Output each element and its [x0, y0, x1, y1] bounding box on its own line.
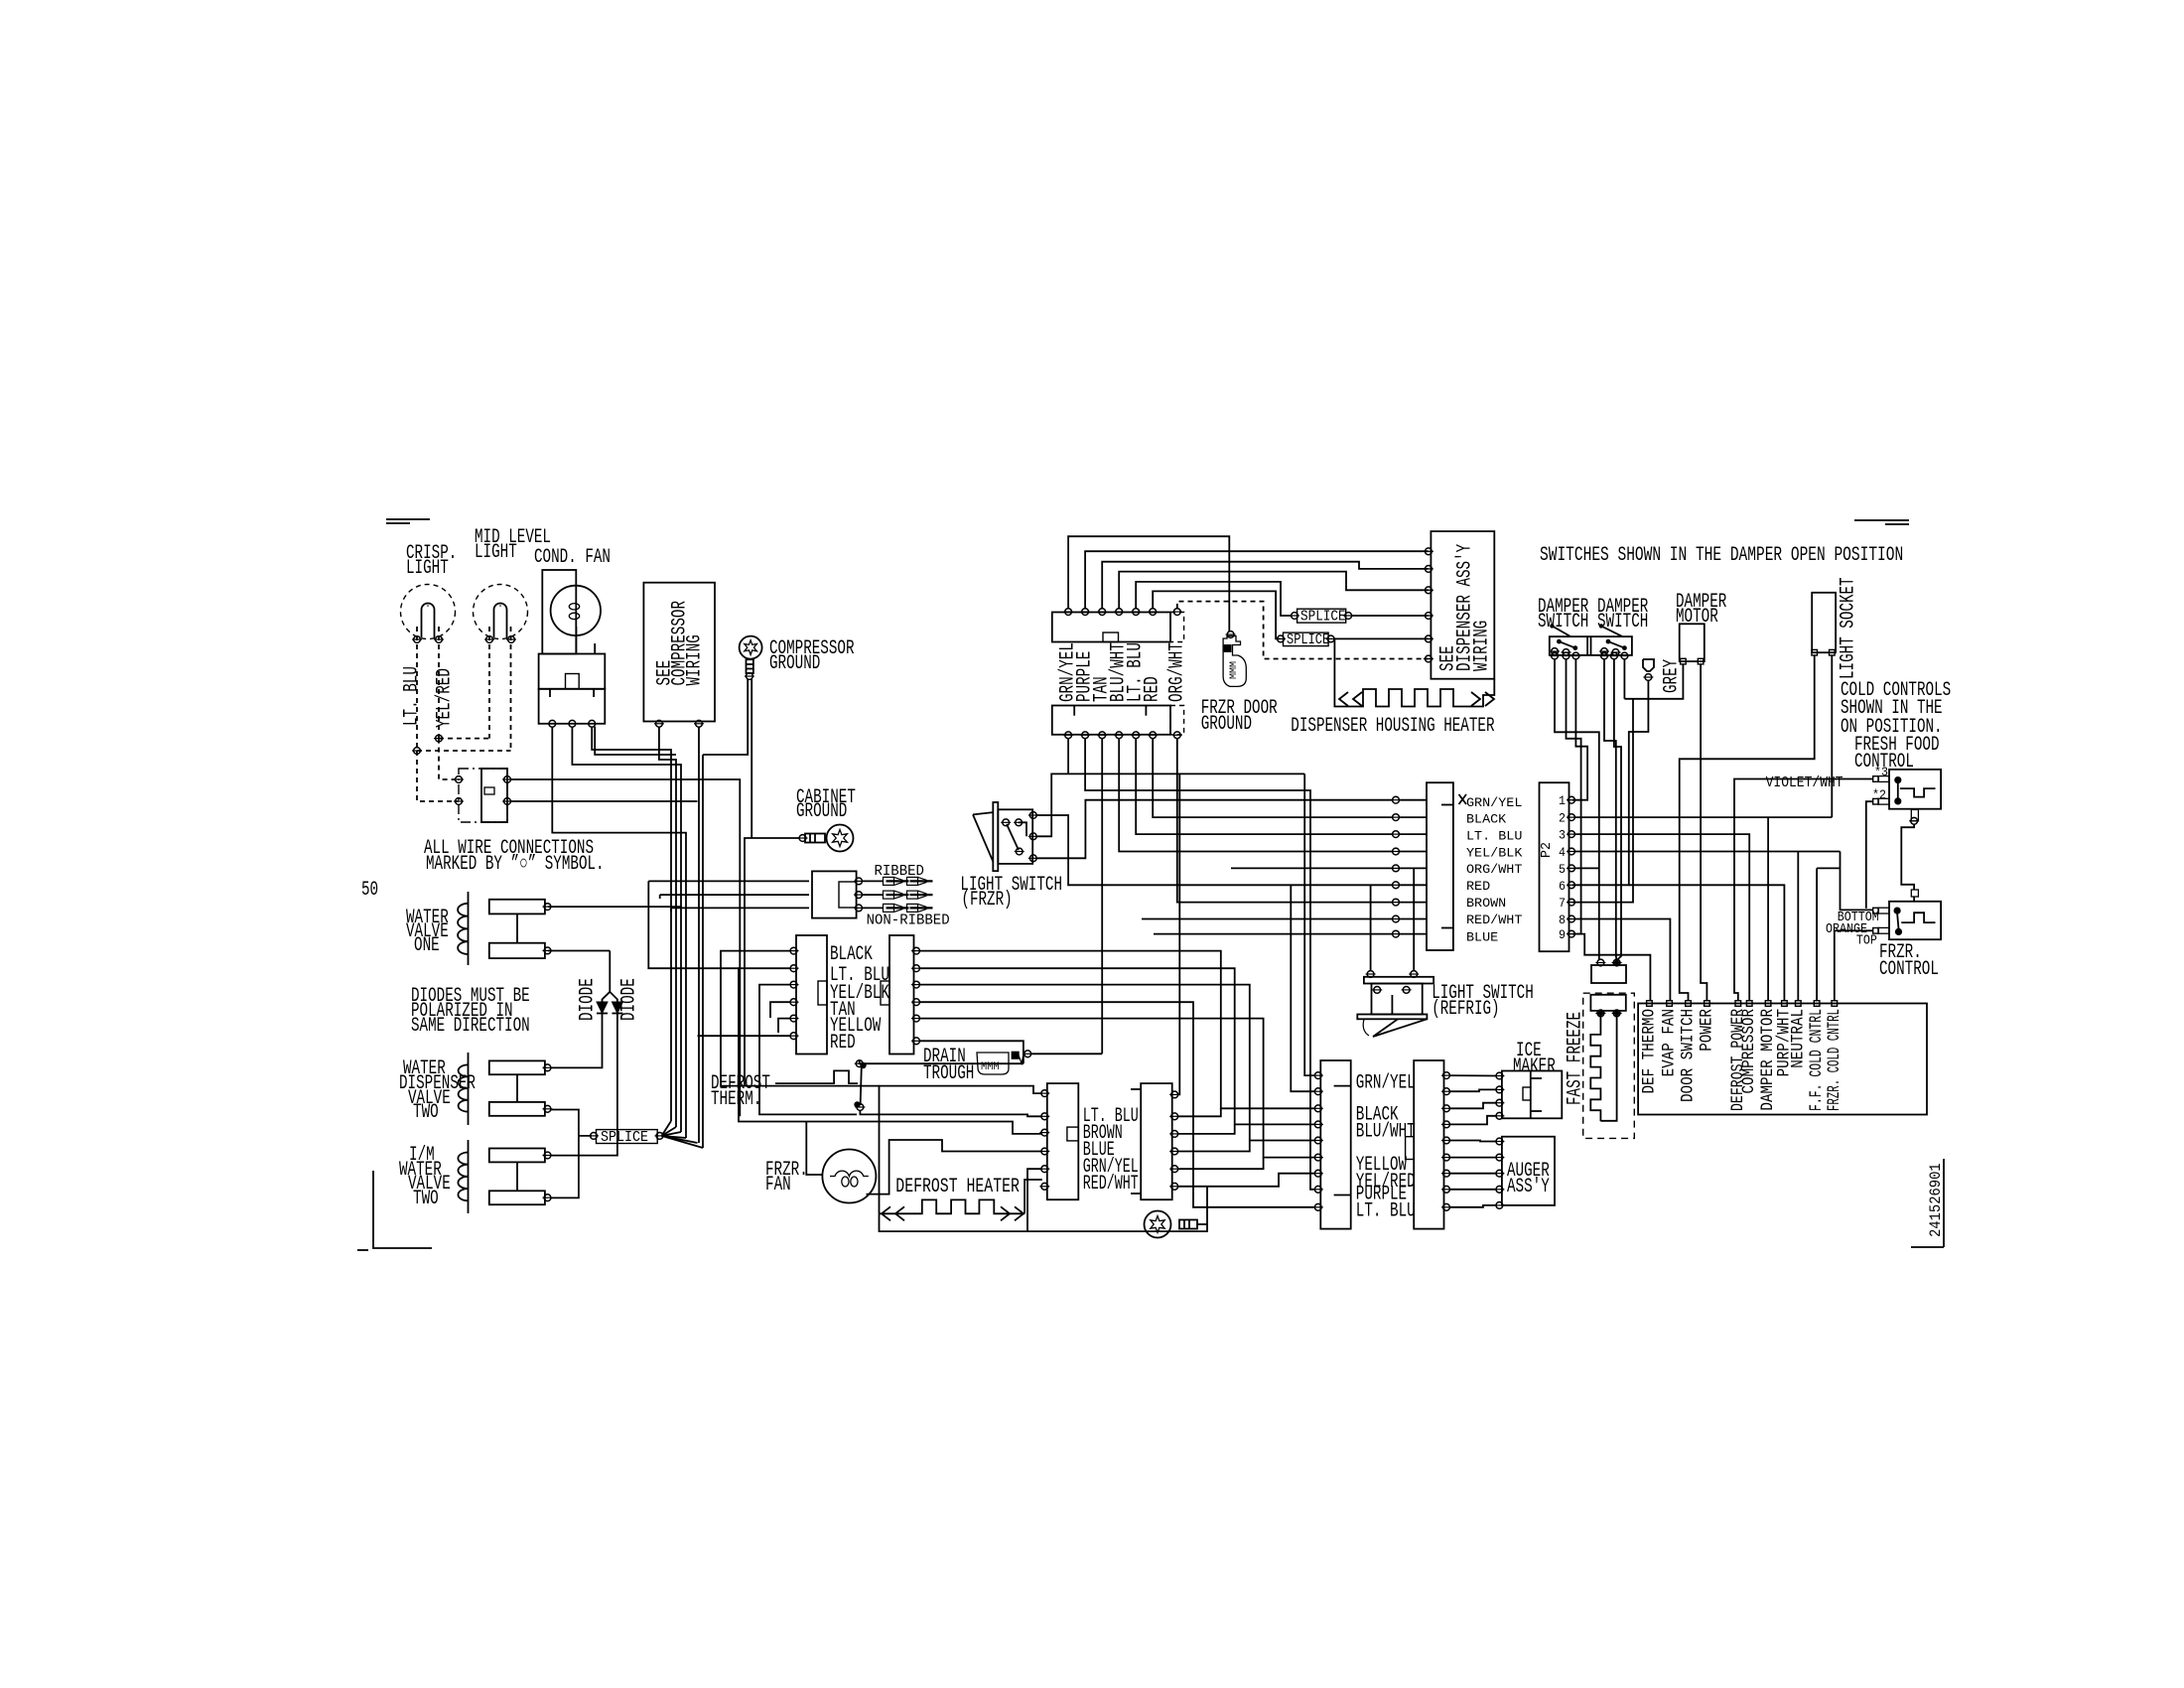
label P2	[1539, 842, 1555, 858]
label FRZR. FAN	[765, 1159, 808, 1196]
svg-text:P2: P2	[1539, 842, 1555, 858]
label GREY	[1661, 659, 1684, 693]
svg-text:VIOLET/WHT: VIOLET/WHT	[1766, 774, 1843, 791]
label AUGER ASS'Y	[1507, 1160, 1550, 1198]
control ff internals	[1894, 776, 1935, 805]
label WATER VALVE ONE	[406, 907, 449, 957]
label FRESH FOOD CONTROL	[1854, 734, 1940, 774]
svg-text:(FRZR): (FRZR)	[961, 889, 1012, 912]
switch light refrig wedge	[1363, 1019, 1427, 1037]
diode D2	[612, 1002, 622, 1014]
solenoid i/m water valve two	[458, 1140, 552, 1213]
wire mid-right dashed	[510, 627, 512, 751]
connector refrig left pins	[1313, 1072, 1323, 1211]
wire damper motor right	[1701, 664, 1706, 1001]
wire yel/red dashed	[438, 627, 440, 739]
connector frzr door lower pins	[1063, 732, 1182, 739]
diode D1	[597, 1002, 608, 1014]
wire au2	[1449, 1157, 1497, 1159]
solenoid water dispenser valve two	[459, 1053, 553, 1125]
wire p2 pin5 out	[1574, 867, 1599, 869]
splice S3 box	[1284, 633, 1329, 646]
label COND. FAN	[534, 546, 611, 569]
label I/M WATER VALVE TWO	[399, 1144, 451, 1210]
labels GRN/YEL..LT.BLU right connector	[1356, 1071, 1416, 1222]
label DAMPER SWITCH 2	[1597, 596, 1648, 633]
ground compressor	[740, 636, 762, 680]
svg-text:DIODE: DIODE	[618, 978, 641, 1021]
box SEE COMPRESSOR WIRING	[643, 583, 715, 722]
wire disp p4	[1119, 572, 1429, 609]
box ice maker	[1502, 1071, 1562, 1119]
label CABINET GROUND	[796, 786, 856, 823]
svg-text:GRN/YEL: GRN/YEL	[1356, 1071, 1416, 1094]
wire violet/wht	[1734, 779, 1873, 1002]
wire trunk2	[659, 727, 676, 1127]
cond fan housing	[542, 570, 576, 654]
wire ground lug	[1197, 1187, 1207, 1224]
label DAMPER SWITCH 1	[1538, 596, 1588, 633]
ground frzr door	[1223, 632, 1246, 687]
wire lsf mid	[1036, 774, 1304, 836]
svg-text:(REFRIG): (REFRIG)	[1432, 998, 1499, 1021]
svg-text:MARKED BY ”○” SYMBOL.: MARKED BY ”○” SYMBOL.	[426, 853, 605, 876]
label ORANGE	[1826, 922, 1867, 937]
svg-text:RED: RED	[830, 1032, 856, 1055]
svg-text:LIGHT SOCKET: LIGHT SOCKET	[1838, 577, 1860, 679]
wire frzr fan top	[806, 1122, 1042, 1134]
wire frzr fan right	[867, 1140, 1042, 1195]
label BOTTOM	[1838, 911, 1879, 925]
svg-text:8: 8	[1559, 913, 1566, 927]
wire ladder y874	[1231, 867, 1393, 869]
ground cabinet	[798, 825, 854, 852]
box auger assy pins	[1494, 1138, 1504, 1208]
svg-text:BLU/WHT: BLU/WHT	[1356, 1121, 1416, 1144]
wire grn/yel net	[1067, 738, 1069, 774]
wire grn/yel to refrig	[1304, 774, 1315, 1075]
wire org/wht net	[1177, 738, 1393, 902]
svg-text:RED/WHT: RED/WHT	[1466, 914, 1523, 927]
wire diode1 to valve two	[551, 1014, 603, 1068]
connector P2	[1540, 782, 1570, 951]
switch interior pins	[454, 776, 512, 805]
wire yel/red net	[1207, 1174, 1315, 1187]
wire ff bottom	[1901, 824, 1914, 890]
motor frzr fan	[822, 1150, 876, 1203]
ground lug center	[1145, 1211, 1198, 1238]
labels BLACK LT.BLU YEL/BLK TAN YELLOW RED	[830, 943, 889, 1055]
wire cabinet ground	[745, 838, 800, 1086]
label MID LEVEL LIGHT	[475, 526, 551, 564]
wire black center link	[1177, 1108, 1221, 1116]
wire ltblu2 center link	[1177, 1124, 1235, 1134]
wire trunk1	[592, 727, 676, 1121]
labels LT.BLU BROWN BLUE GRN/YEL RED/WHT	[1083, 1105, 1139, 1196]
splice S1 pins	[589, 1133, 665, 1140]
label RIBBED	[875, 863, 924, 880]
connector center	[1131, 1083, 1172, 1199]
switch light refrig flange	[1357, 1015, 1427, 1020]
label SPLICE S2	[1300, 610, 1346, 626]
wire valve two lower to splice	[551, 1110, 592, 1136]
label DIODE right	[618, 978, 641, 1021]
label SPLICE S1	[601, 1130, 648, 1146]
symbol X grn/yel	[1459, 794, 1467, 804]
svg-text:COMPRESSOR: COMPRESSOR	[1739, 1009, 1759, 1094]
wire lt.blu net	[1136, 738, 1393, 834]
label FAST FREEZE	[1565, 1012, 1587, 1105]
connector refrig left	[1320, 1060, 1350, 1229]
labels P2 wire colors	[1466, 796, 1523, 945]
wire dsw t5	[1614, 659, 1621, 961]
svg-text:WIRING: WIRING	[1471, 621, 1494, 671]
wire switch out1	[511, 779, 741, 1116]
control frzr plugs	[1873, 908, 1889, 933]
connector evap left	[796, 935, 827, 1055]
wire evap pin4	[770, 1002, 791, 1018]
wire to ribbed2	[660, 895, 809, 899]
heater arrows right	[1001, 1206, 1024, 1220]
wire refrig pin2 feed	[1291, 885, 1315, 1092]
thermostat defrost leader	[775, 1070, 858, 1083]
connector frzr door lower	[1052, 706, 1170, 735]
wire splice fan-in	[662, 1121, 704, 1148]
wire p2 pin4 out	[1574, 852, 1841, 1002]
connector evap left pins	[789, 947, 799, 1039]
wire dsw t3	[1572, 659, 1587, 800]
wire light socket right	[1831, 655, 1833, 817]
wire mid-left dashed	[488, 627, 490, 739]
connector fast freeze top pins	[1595, 959, 1621, 966]
svg-text:4: 4	[1559, 845, 1566, 860]
wire au3	[1449, 1173, 1497, 1175]
wire heater return	[880, 1213, 1208, 1231]
wire yelblk net	[919, 985, 1315, 1141]
wire dashed to switch pin2	[417, 751, 459, 801]
connector harness main	[1427, 782, 1453, 950]
wire evap pin6	[698, 1035, 791, 1037]
svg-text:ORG/WHT: ORG/WHT	[1466, 863, 1523, 877]
heater dispenser arrows left	[1339, 692, 1362, 706]
wire valve chain up	[648, 881, 739, 968]
wire damper motor left	[1572, 664, 1684, 903]
wire p2 pin9 out	[1574, 934, 1651, 1001]
wire tan trough link	[1031, 1053, 1103, 1055]
control fresh food box	[1889, 770, 1941, 809]
wire trunk5	[698, 727, 700, 1143]
see compressor wiring pins	[654, 720, 704, 727]
control ff plugs	[1872, 765, 1889, 804]
switch interior light	[459, 769, 507, 822]
svg-text:MMM: MMM	[1229, 661, 1240, 679]
resistor fast freeze	[1590, 1016, 1616, 1121]
board control labels	[1639, 1009, 1843, 1111]
label FRZR. CONTROL	[1879, 941, 1939, 981]
svg-text:MMM: MMM	[981, 1061, 1000, 1073]
label SEE DISPENSER ASS'Y WIRING	[1437, 544, 1494, 671]
cond fan motor circle	[551, 586, 601, 654]
wire splice2 to box	[1351, 615, 1429, 617]
label DIODE left	[577, 978, 600, 1021]
connector fast freeze inner pins	[1595, 1010, 1621, 1017]
svg-text:SWITCHES SHOWN IN THE DAMPER O: SWITCHES SHOWN IN THE DAMPER OPEN POSITI…	[1540, 544, 1903, 567]
motor damper box	[1680, 624, 1705, 661]
label FRZR DOOR GROUND	[1201, 697, 1278, 736]
svg-text:DOOR SWITCH: DOOR SWITCH	[1679, 1009, 1699, 1102]
svg-text:2: 2	[1559, 811, 1566, 826]
wire frzr pin1 feed	[1841, 852, 1873, 911]
label DAMPER MOTOR	[1676, 591, 1726, 629]
control frzr box	[1889, 902, 1941, 939]
wire trunk6	[702, 755, 704, 1148]
wire disp p5	[1136, 582, 1292, 616]
svg-text:NON-RIBBED: NON-RIBBED	[867, 913, 950, 929]
svg-text:*3: *3	[1874, 765, 1888, 779]
label LT. BLU	[401, 666, 424, 726]
svg-text:3: 3	[1559, 828, 1566, 843]
wire au4	[1449, 1189, 1497, 1191]
wire valve one lower out	[548, 950, 610, 952]
wire black net	[919, 951, 1315, 1109]
corner mark top-left	[386, 519, 430, 523]
wire switch out2	[511, 800, 698, 802]
wire au1	[1449, 1141, 1497, 1142]
svg-text:SPLICE: SPLICE	[601, 1130, 648, 1146]
wire trunk4	[552, 727, 686, 1138]
box ice maker pins	[1494, 1072, 1504, 1119]
label TOP	[1856, 934, 1877, 949]
svg-text:LT. BLU: LT. BLU	[1466, 829, 1522, 843]
wire grey	[1572, 680, 1785, 1001]
wire disp p1	[1068, 536, 1229, 632]
wire disp p3	[1102, 562, 1429, 609]
label WATER DISPENSER VALVE TWO	[399, 1057, 476, 1124]
label COMPRESSOR GROUND	[769, 637, 855, 675]
svg-text:TOP: TOP	[1856, 934, 1877, 949]
heater arrows left	[882, 1206, 904, 1220]
label SPLICE S3	[1287, 633, 1329, 648]
svg-text:LIGHT: LIGHT	[475, 541, 517, 564]
heater defrost element	[880, 1199, 1025, 1213]
switch damper leader2	[1599, 624, 1623, 636]
wire therm bottom	[860, 1110, 1041, 1116]
wire yellow center link	[1177, 1158, 1264, 1170]
wire orange	[1835, 930, 1873, 1001]
heater dispenser housing element	[1350, 689, 1467, 707]
wire evap pin3	[759, 985, 857, 1115]
wire im2	[1449, 1089, 1497, 1091]
wire heater to pin6	[1024, 1180, 1042, 1213]
connector fast freeze inner	[1590, 995, 1625, 1011]
wire to ribbed1	[648, 880, 809, 882]
svg-text:FAST FREEZE: FAST FREEZE	[1565, 1012, 1587, 1105]
label DEFROST THERM.	[711, 1072, 770, 1111]
wire lsr pin1 up	[1370, 885, 1372, 971]
label ICE MAKER	[1513, 1040, 1556, 1078]
wire trough pin link	[919, 1041, 1024, 1063]
cond fan pins	[547, 720, 597, 727]
wire light socket left	[1680, 655, 1815, 1001]
svg-text:THERM.: THERM.	[711, 1088, 761, 1111]
corner mark top-right	[1854, 520, 1909, 524]
connector frzr door upper pins	[1063, 609, 1182, 616]
wire dsw t2	[1567, 659, 1581, 934]
corner mark bottom-left	[357, 1171, 432, 1250]
wire yel/red center link	[1177, 1186, 1207, 1188]
svg-text:CONTROL: CONTROL	[1879, 958, 1939, 981]
wire diode2 to i/m valve	[551, 1014, 617, 1156]
wire disp p7 dashed	[1177, 602, 1429, 659]
wire im4	[1449, 1116, 1497, 1125]
lamp crisper light	[401, 585, 456, 643]
svg-text:WIRING: WIRING	[684, 634, 707, 685]
switch damper leader1	[1550, 624, 1570, 636]
control frzr internals	[1894, 908, 1936, 936]
thermostat defrost contacts	[854, 1060, 866, 1111]
svg-text:5: 5	[1559, 862, 1566, 877]
box light socket	[1812, 593, 1836, 652]
svg-text:BLACK: BLACK	[830, 943, 873, 966]
wire lsr pin2 up	[1413, 868, 1415, 971]
note switches shown	[1540, 544, 1903, 567]
connector P2 pins	[1559, 793, 1576, 942]
wire lsf bottom	[1036, 800, 1393, 859]
wire heater feed	[880, 1086, 1042, 1214]
motor damper pins	[1681, 658, 1704, 664]
svg-text:FAN: FAN	[765, 1174, 791, 1196]
wire evap pin1	[721, 951, 880, 1086]
svg-text:ASS'Y: ASS'Y	[1507, 1176, 1550, 1198]
solenoid water valve one	[458, 892, 552, 965]
wire valve one upper out	[548, 906, 682, 908]
svg-text:NEUTRAL: NEUTRAL	[1788, 1009, 1808, 1068]
svg-text:RED/WHT: RED/WHT	[1083, 1173, 1139, 1196]
wire dsw t1	[1555, 659, 1599, 961]
wire evap pin5	[778, 1019, 791, 1033]
control ff bottom plug	[1909, 809, 1919, 824]
connector refrig right	[1406, 1060, 1444, 1229]
wire dashed to switch pin1	[439, 739, 456, 779]
svg-text:BROWN: BROWN	[1466, 897, 1506, 911]
box auger assy	[1502, 1137, 1555, 1205]
board control box	[1638, 1004, 1927, 1115]
wire disp p6	[1153, 591, 1280, 638]
connector fast freeze top	[1591, 965, 1626, 983]
switch light frzr pins	[1028, 812, 1038, 862]
box dispenser pins	[1424, 548, 1433, 662]
board control pins	[1647, 1001, 1838, 1007]
svg-text:ONE: ONE	[414, 934, 440, 957]
wire therm top	[860, 1060, 1024, 1063]
connector frzr door upper dashed col	[1170, 613, 1184, 642]
svg-text:FRZR. COLD CNTRL: FRZR. COLD CNTRL	[1825, 1009, 1844, 1111]
wire compressor ground down	[703, 679, 751, 838]
wire im3	[1449, 1103, 1497, 1109]
box light socket pins	[1812, 649, 1835, 655]
wire tan net	[1101, 738, 1103, 1054]
svg-text:RED: RED	[1142, 676, 1164, 702]
svg-text:DEFROST HEATER: DEFROST HEATER	[895, 1176, 1020, 1198]
label DEFROST HEATER	[895, 1176, 1020, 1198]
wire im1	[1449, 1074, 1497, 1076]
wire junction lt.blu	[412, 748, 511, 755]
switch light frzr body	[998, 809, 1032, 864]
svg-text:YEL/RED: YEL/RED	[434, 668, 457, 728]
wire tan2 net	[919, 1002, 1315, 1207]
plug frzr control top	[1911, 890, 1918, 902]
plug grey	[1643, 659, 1654, 680]
wire grn/yel to center	[1177, 774, 1179, 1094]
svg-text:COND. FAN: COND. FAN	[534, 546, 611, 569]
connector center pins	[1169, 1091, 1179, 1190]
svg-text:SPLICE: SPLICE	[1300, 610, 1346, 626]
switch damper pins	[1550, 652, 1629, 659]
wire blu/wht net	[1119, 738, 1393, 851]
svg-text:DISPENSER HOUSING HEATER: DISPENSER HOUSING HEATER	[1291, 715, 1494, 738]
label YEL/RED	[434, 668, 457, 728]
wire purple net	[1085, 738, 1315, 1189]
svg-text:SAME DIRECTION: SAME DIRECTION	[411, 1015, 530, 1038]
note all wire connections	[424, 837, 605, 876]
lamp mid level light	[474, 585, 528, 643]
svg-text:GROUND: GROUND	[1201, 713, 1252, 736]
label LIGHT SWITCH (FRZR)	[960, 874, 1062, 912]
wire grn/yel pin5 stub	[1027, 1169, 1042, 1231]
svg-text:SWITCH: SWITCH	[1597, 611, 1648, 633]
heater dispenser arrows right	[1471, 692, 1494, 706]
splice S2 box	[1297, 609, 1346, 623]
svg-text:BLUE: BLUE	[1466, 931, 1498, 945]
switch light frzr wedge	[973, 812, 993, 862]
label DISPENSER HOUSING HEATER	[1291, 715, 1494, 738]
box SEE DISPENSER ASS'Y WIRING	[1431, 531, 1494, 679]
connector refrig right pins	[1441, 1072, 1451, 1211]
label DRAIN TROUGH	[923, 1046, 974, 1085]
svg-text:6: 6	[1559, 879, 1566, 894]
wire splice3 branch to heater	[1334, 638, 1350, 706]
sheet number 50	[361, 879, 378, 902]
label VIOLET/WHT	[1766, 774, 1843, 791]
wire i/m lower to splice	[551, 1136, 579, 1198]
wire ff cold cntrl	[1817, 868, 1840, 1001]
switch damper internals	[1550, 639, 1627, 656]
svg-text:ORG/WHT: ORG/WHT	[1165, 642, 1188, 702]
svg-text:MAKER: MAKER	[1513, 1055, 1556, 1078]
wire au5	[1449, 1205, 1497, 1207]
svg-text:EVAP FAN: EVAP FAN	[1660, 1009, 1680, 1076]
wire ladder y940	[1154, 933, 1393, 935]
connector ribbed box	[812, 871, 857, 917]
drain trough symbol	[977, 1051, 1032, 1074]
svg-text:7: 7	[1559, 896, 1566, 911]
wire junction yel/red	[434, 735, 489, 742]
connector heater block pins	[1039, 1090, 1049, 1191]
svg-text:BLACK: BLACK	[1466, 813, 1507, 827]
wire ladder y925	[1142, 918, 1393, 920]
wire ff pin2	[1866, 801, 1873, 909]
wire splice3 to box	[1333, 637, 1429, 639]
part number 241526901	[1927, 1163, 1945, 1237]
svg-text:9: 9	[1559, 927, 1566, 942]
note diodes	[411, 985, 530, 1038]
wire lsf top	[1036, 815, 1393, 885]
wire dsw t6	[1623, 659, 1625, 699]
label SEE COMPRESSOR WIRING	[654, 601, 707, 686]
wire lt. blu dashed	[416, 627, 418, 751]
svg-text:DIODE: DIODE	[577, 978, 600, 1021]
svg-text:DEF THERMO: DEF THERMO	[1639, 1009, 1659, 1094]
